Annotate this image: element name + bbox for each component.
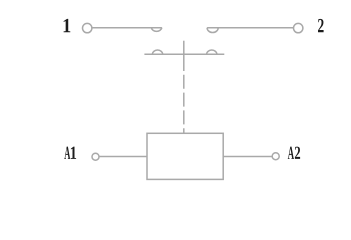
terminal A2 circle [272, 153, 279, 160]
right fixed contact arc [207, 28, 218, 33]
terminal label 1 [64, 19, 71, 32]
movable contact bridge bar [144, 53, 224, 55]
coil rectangle [147, 133, 223, 179]
terminal A1 circle [92, 153, 99, 160]
mechanical linkage dashed [183, 71, 185, 133]
terminal 1 circle [83, 23, 92, 32]
left bridge contact arc [152, 50, 163, 54]
wire terminal 1 to left fixed contact [92, 27, 162, 29]
terminal label 2 [318, 19, 324, 32]
right bridge contact arc [206, 50, 217, 54]
terminal 2 circle [294, 23, 303, 32]
actuator stem solid [183, 41, 185, 71]
wire coil to A2 [223, 156, 272, 158]
left fixed contact arc [151, 28, 162, 32]
wire right fixed contact to terminal 2 [207, 27, 293, 29]
wire A1 to coil [99, 156, 147, 158]
terminal label A2 [288, 147, 300, 159]
terminal label A1 [64, 147, 76, 159]
